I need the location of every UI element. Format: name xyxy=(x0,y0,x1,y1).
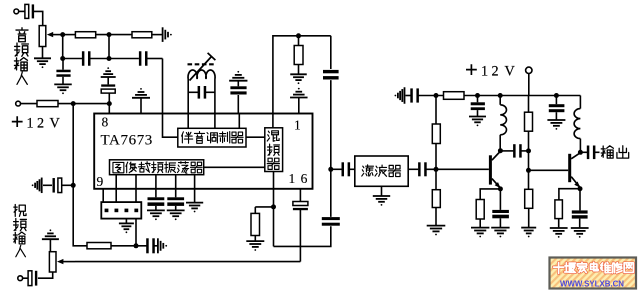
svg-text:V: V xyxy=(505,64,516,80)
wire xyxy=(90,58,139,60)
wire xyxy=(435,96,437,125)
capacitor C10 to ground xyxy=(230,86,246,89)
ground up-facing xyxy=(101,67,116,77)
wire xyxy=(155,206,157,210)
wire xyxy=(477,96,479,103)
wire xyxy=(528,96,530,113)
ground left-facing xyxy=(32,178,42,194)
wire xyxy=(175,206,177,210)
ground xyxy=(119,223,134,233)
ground xyxy=(373,196,390,206)
node xyxy=(107,32,112,37)
wire xyxy=(559,189,580,200)
wire xyxy=(273,172,275,189)
wire rail corner xyxy=(579,96,581,109)
adjust arrow bar xyxy=(208,53,216,60)
wire xyxy=(528,170,530,189)
wire xyxy=(331,168,342,170)
wire pin 9 lead xyxy=(102,189,104,202)
resistor R5 xyxy=(294,46,303,65)
block filter 滤波器 xyxy=(355,156,408,186)
ground xyxy=(246,241,264,251)
wire xyxy=(62,35,64,59)
wire xyxy=(38,272,53,278)
transistor Q1 xyxy=(489,155,492,184)
label 出 xyxy=(617,146,629,158)
label 器 xyxy=(267,158,279,169)
ground xyxy=(571,228,589,238)
adjust arrow xyxy=(190,57,212,81)
block picture carrier oscillator 图像载频振荡器 xyxy=(110,160,204,175)
pin dot xyxy=(125,209,129,213)
wire bus xyxy=(330,80,332,217)
label 调 xyxy=(207,133,217,143)
terminal +12V right xyxy=(526,67,532,73)
wire oscillator pin xyxy=(115,175,117,189)
wire video line xyxy=(75,261,300,263)
wire xyxy=(435,208,437,226)
pin dot xyxy=(134,209,138,213)
wire oscillator pin xyxy=(135,175,137,189)
wire xyxy=(500,150,513,152)
capacitor C19 coupling xyxy=(513,144,522,157)
capacitor C3 xyxy=(139,51,148,66)
capacitor C7 xyxy=(146,238,155,253)
resistor R6 xyxy=(251,213,260,235)
node emitter Q2 xyxy=(578,186,583,191)
svg-text:WWW.SYLXB.CN: WWW.SYLXB.CN xyxy=(560,280,624,289)
wire xyxy=(521,150,528,152)
wire xyxy=(499,96,501,105)
wire xyxy=(135,219,137,246)
pin dot xyxy=(115,209,119,213)
wire tank left leg xyxy=(187,79,189,114)
wire oscillator pin xyxy=(155,175,157,189)
wire xyxy=(274,226,331,246)
wire xyxy=(237,81,239,86)
ground up-facing xyxy=(132,88,150,98)
wire xyxy=(135,189,137,202)
wire xyxy=(214,114,216,129)
label 入 xyxy=(17,72,27,84)
node xyxy=(296,33,301,38)
resistor R1 xyxy=(75,32,95,38)
node xyxy=(475,93,480,98)
wire xyxy=(298,65,300,74)
wire xyxy=(111,245,147,247)
wire to pin xyxy=(162,59,164,114)
wire pin to modulator xyxy=(163,114,178,138)
wire xyxy=(194,189,196,202)
capacitor C16 xyxy=(410,88,419,102)
ground up-facing xyxy=(42,229,59,239)
wire xyxy=(528,131,530,170)
wire xyxy=(72,104,74,186)
ground xyxy=(491,228,509,238)
wire Q2 base xyxy=(529,169,569,171)
label 混 xyxy=(267,131,279,141)
capacitor C4 to ground xyxy=(56,70,70,73)
label 像 xyxy=(126,162,137,173)
op-amp IC U1 TA7673 outline xyxy=(94,114,312,189)
ground xyxy=(54,84,72,94)
inductor L2 xyxy=(500,105,506,135)
ground xyxy=(550,228,568,238)
node xyxy=(526,148,531,153)
capacitor C18 emitter bypass xyxy=(492,210,509,213)
capacitor C8 video coupling xyxy=(28,271,37,286)
node xyxy=(71,183,76,188)
node xyxy=(71,101,76,106)
wire xyxy=(108,93,110,103)
label 输 xyxy=(14,58,27,71)
potentiometer RP2 video level xyxy=(49,252,56,272)
wire xyxy=(528,208,530,227)
core dashed line xyxy=(188,63,217,65)
wire xyxy=(73,185,87,246)
node xyxy=(434,167,439,172)
node xyxy=(328,167,333,172)
plus sign xyxy=(12,116,23,127)
label 器 xyxy=(231,132,243,143)
label 频 xyxy=(15,43,29,56)
capacitor C22 emitter bypass xyxy=(572,210,588,213)
wire xyxy=(42,47,44,58)
label 输 xyxy=(601,146,613,158)
wire xyxy=(579,139,581,153)
svg-text:2: 2 xyxy=(37,116,44,132)
label 入 xyxy=(16,245,26,256)
capacitor C9 tank xyxy=(198,86,207,99)
label 音 xyxy=(194,132,204,144)
wire xyxy=(49,239,51,252)
wire xyxy=(254,236,256,241)
wire xyxy=(107,78,109,85)
ground xyxy=(167,210,185,220)
resistor R12 xyxy=(525,189,533,208)
wire xyxy=(555,96,557,105)
wire xyxy=(555,112,557,119)
wire xyxy=(206,91,215,93)
wire xyxy=(43,184,52,186)
capacitor C21 output coupling xyxy=(587,146,596,160)
resistor R11 xyxy=(525,112,533,131)
svg-text:1: 1 xyxy=(481,64,488,80)
resistor R10 xyxy=(476,200,484,220)
label 载 xyxy=(138,162,150,173)
ground up-facing xyxy=(290,88,308,98)
wire xyxy=(23,277,29,279)
wire xyxy=(19,10,26,12)
ground right-facing xyxy=(158,238,167,253)
ground xyxy=(290,74,307,84)
wire xyxy=(435,169,437,189)
terminal +12V xyxy=(16,101,21,106)
label 荡 xyxy=(177,162,188,174)
capacitor C2 xyxy=(82,51,91,66)
wire xyxy=(595,151,600,153)
block mixer 混频器 xyxy=(265,128,283,172)
wire xyxy=(58,103,109,105)
svg-text:1: 1 xyxy=(294,118,301,133)
plus sign right xyxy=(466,64,477,75)
wire xyxy=(298,36,300,46)
label 制 xyxy=(219,132,230,143)
resistor R13 xyxy=(555,200,563,219)
wire xyxy=(254,207,256,214)
wiper arrow xyxy=(47,32,53,37)
wire xyxy=(580,151,587,153)
wire xyxy=(579,189,581,211)
node xyxy=(107,56,112,61)
wire xyxy=(528,74,530,96)
pin dot xyxy=(105,209,109,213)
wire xyxy=(499,189,501,210)
label 波 xyxy=(375,165,386,176)
wire xyxy=(63,58,83,60)
wire bus xyxy=(330,36,332,69)
wire xyxy=(381,186,383,195)
node xyxy=(526,168,531,173)
wire xyxy=(435,144,437,170)
label 音 xyxy=(16,28,28,42)
ground xyxy=(34,58,51,68)
wire xyxy=(477,110,479,116)
capacitor C15 xyxy=(418,162,427,176)
ground xyxy=(521,228,536,238)
svg-text:TA7673: TA7673 xyxy=(101,133,153,149)
resistor R4 xyxy=(87,243,111,249)
svg-text:1 6: 1 6 xyxy=(289,171,309,186)
capacitor C5 supply decoupling xyxy=(101,84,115,93)
resistor R2 xyxy=(132,32,152,38)
capacitor C17 rail decoupling xyxy=(471,102,485,105)
terminal video input xyxy=(18,276,23,281)
svg-text:8: 8 xyxy=(102,115,109,130)
wire oscillator to mixer xyxy=(204,166,265,168)
node pin8 feed xyxy=(107,101,112,106)
wire xyxy=(408,168,418,170)
wire xyxy=(558,219,560,228)
ground xyxy=(147,210,165,220)
node xyxy=(498,93,503,98)
wire xyxy=(272,114,274,128)
wire xyxy=(418,95,443,97)
wire xyxy=(579,219,581,228)
capacitor C12 bus lower xyxy=(322,217,340,226)
wire xyxy=(479,219,481,227)
wire xyxy=(62,77,64,84)
wire xyxy=(34,11,43,25)
wire xyxy=(499,218,501,227)
ground xyxy=(471,228,489,238)
watermark badge 十堰家电维修网 WWW.SYLXB.CN xyxy=(550,258,637,289)
wire wiper xyxy=(53,34,63,36)
capacitor C11 bus xyxy=(323,70,339,80)
ground right-facing xyxy=(163,27,172,42)
wire xyxy=(63,34,76,36)
wire xyxy=(273,189,275,247)
ground xyxy=(186,203,203,213)
wire xyxy=(21,103,38,105)
ground xyxy=(427,226,446,236)
wire xyxy=(480,189,500,200)
wire xyxy=(140,98,142,113)
wire tank right leg xyxy=(214,79,216,114)
ground xyxy=(469,117,486,127)
wire xyxy=(96,34,132,36)
svg-text:2: 2 xyxy=(492,64,499,80)
node xyxy=(554,93,559,98)
wire xyxy=(499,135,501,151)
wire xyxy=(298,98,300,114)
capacitor C1 audio coupling xyxy=(25,4,34,18)
label 伴 xyxy=(182,132,193,143)
svg-text:V: V xyxy=(50,116,61,132)
capacitor C6 xyxy=(53,178,62,193)
node xyxy=(134,243,139,248)
svg-text:1: 1 xyxy=(27,116,34,132)
wire xyxy=(62,59,64,70)
label 振 xyxy=(165,162,176,173)
wire xyxy=(406,95,411,97)
capacitor C20 xyxy=(549,104,565,107)
wire xyxy=(426,168,489,170)
wire pin16 lead xyxy=(299,189,301,202)
resistor R8 xyxy=(432,124,440,144)
wire pin1 top net xyxy=(273,36,331,114)
inductor L3 xyxy=(574,109,580,139)
wire xyxy=(125,219,127,223)
capacitor C14 xyxy=(342,162,351,176)
inductor L1 adjustable xyxy=(188,70,215,79)
potentiometer RP1 audio level xyxy=(39,26,46,47)
wiper arrow xyxy=(57,259,63,264)
capacitor under IC x155.9 xyxy=(148,197,165,200)
label 输 xyxy=(13,232,25,244)
wire xyxy=(237,95,239,114)
ground xyxy=(547,120,565,130)
node emitter Q1 xyxy=(498,186,503,191)
wire xyxy=(175,189,177,198)
node xyxy=(60,56,65,61)
terminal audio input xyxy=(14,9,19,14)
wire xyxy=(152,34,162,36)
wire xyxy=(154,245,158,247)
label 器 xyxy=(388,165,400,176)
label 频 xyxy=(14,219,27,231)
resistor R3 xyxy=(37,101,58,107)
transistor Q2 xyxy=(568,154,571,182)
capacitor C13 pin16 xyxy=(293,202,308,211)
wire xyxy=(238,114,240,129)
capacitor under IC x175.7 xyxy=(167,197,184,200)
label 频 xyxy=(268,144,280,155)
wire xyxy=(188,91,198,93)
node audio junction xyxy=(60,32,65,37)
resistor R7 xyxy=(444,92,465,100)
ground left-facing xyxy=(395,87,405,104)
wire xyxy=(187,114,189,129)
wire xyxy=(147,58,163,60)
wire xyxy=(115,189,117,202)
wire xyxy=(350,168,355,170)
node xyxy=(271,204,276,209)
wire xyxy=(255,206,273,208)
svg-text:9: 9 xyxy=(97,174,104,189)
wire wiper xyxy=(63,261,76,263)
label 滤 xyxy=(362,165,374,176)
wire xyxy=(108,35,110,59)
block sound modulator 伴音调制器 xyxy=(178,128,246,147)
wire oscillator pin xyxy=(194,175,196,189)
wire xyxy=(246,136,265,138)
node collector Q2 xyxy=(578,150,583,155)
ground up-facing xyxy=(229,71,247,81)
node xyxy=(434,93,439,98)
wire oscillator pin xyxy=(175,175,177,189)
connector/delay-line X1 xyxy=(101,202,141,219)
label 频 xyxy=(152,162,163,173)
resistor R9 xyxy=(432,190,440,208)
node collector Q1 xyxy=(498,148,503,153)
label 图 xyxy=(113,162,124,172)
label 器 xyxy=(190,162,202,173)
wire xyxy=(155,189,157,198)
label 视 xyxy=(14,205,26,217)
wire pin 8 lead xyxy=(108,104,110,114)
wire xyxy=(61,184,73,186)
wire 12V rail xyxy=(464,95,580,97)
wire xyxy=(299,210,301,262)
